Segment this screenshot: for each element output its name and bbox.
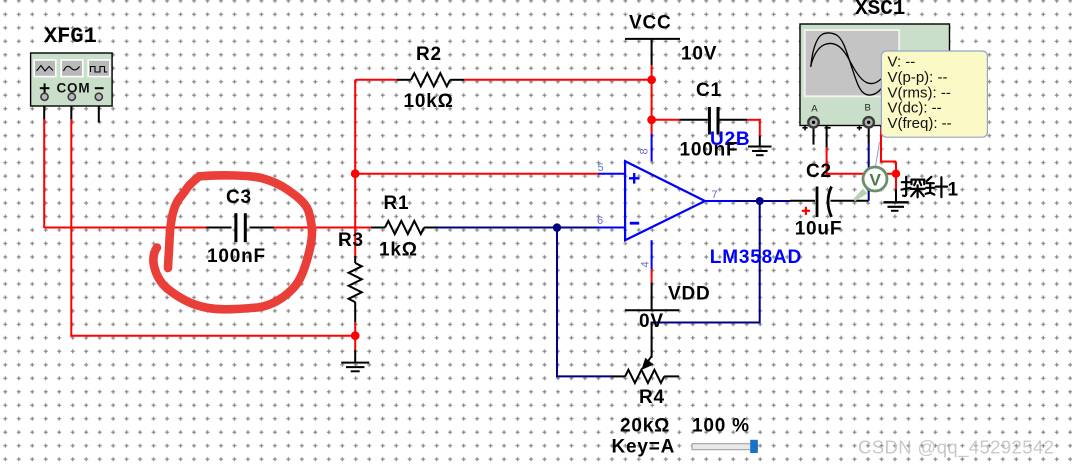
svg-text:1: 1 [948,180,959,201]
svg-text:10V: 10V [681,44,717,65]
svg-text:4: 4 [640,261,652,267]
svg-text:C2: C2 [806,161,832,182]
svg-text:0V: 0V [639,311,664,332]
svg-text:8: 8 [639,148,651,154]
svg-text:V(freq): --: V(freq): -- [888,115,952,132]
svg-text:5: 5 [598,162,604,174]
svg-text:A: A [811,103,818,114]
svg-text:CSDN @qq_45292542: CSDN @qq_45292542 [858,437,1054,459]
svg-text:7: 7 [712,189,718,201]
svg-text:VDD: VDD [668,284,711,305]
svg-text:C3: C3 [226,187,252,208]
svg-text:20kΩ: 20kΩ [620,416,670,437]
svg-text:10kΩ: 10kΩ [404,91,454,112]
svg-text:C1: C1 [696,80,722,101]
svg-text:100nF: 100nF [680,140,739,161]
svg-text:R2: R2 [416,44,442,65]
svg-text:XSC1: XSC1 [855,0,905,21]
svg-text:100nF: 100nF [207,246,266,267]
svg-text:VCC: VCC [629,13,672,34]
svg-text:B: B [865,102,872,113]
svg-text:1kΩ: 1kΩ [379,240,418,261]
svg-text:Key=A: Key=A [612,437,676,458]
svg-text:LM358AD: LM358AD [710,247,802,268]
svg-text:XFG1: XFG1 [44,24,97,49]
svg-text:6: 6 [597,215,603,227]
svg-text:R4: R4 [639,387,665,408]
svg-text:V: V [870,171,882,190]
svg-text:R3: R3 [338,230,364,251]
svg-text:10uF: 10uF [795,219,843,240]
svg-text:100 %: 100 % [692,416,750,437]
svg-text:R1: R1 [384,193,410,214]
